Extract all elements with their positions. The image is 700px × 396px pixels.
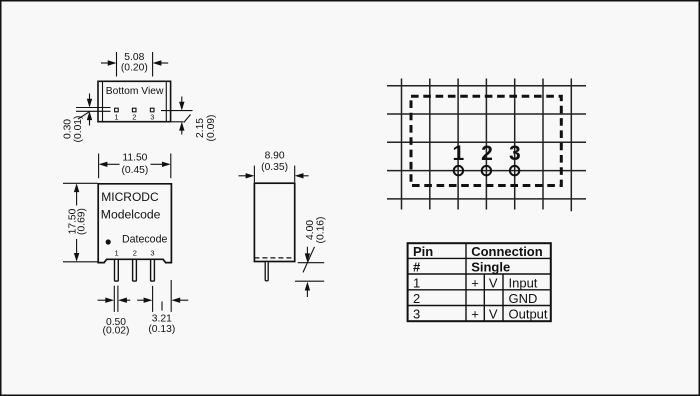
dimension 3.21 (0.13) lead to edge	[137, 280, 188, 312]
footprint hole 3	[510, 166, 519, 175]
svg-text:11.50: 11.50	[122, 152, 147, 163]
svg-text:3: 3	[150, 248, 154, 257]
svg-text:Single: Single	[471, 260, 510, 275]
svg-text:#: #	[413, 260, 421, 275]
svg-text:1: 1	[453, 142, 465, 165]
svg-text:MICRODC: MICRODC	[101, 190, 159, 204]
svg-text:3: 3	[413, 307, 420, 322]
footprint dashed outline	[411, 96, 561, 185]
pin connection table grid	[408, 243, 551, 321]
svg-text:1: 1	[114, 113, 118, 122]
svg-text:Connection: Connection	[471, 244, 543, 259]
front view package outline with standoff feet	[98, 184, 171, 263]
svg-text:+: +	[471, 275, 479, 290]
dimension 0.30 (0.01) pin thickness	[76, 94, 111, 126]
svg-text:(0.69): (0.69)	[77, 208, 88, 235]
svg-text:3: 3	[509, 142, 521, 165]
svg-text:(0.01): (0.01)	[73, 116, 84, 143]
svg-text:1: 1	[413, 275, 420, 290]
side view package outline	[254, 183, 294, 261]
dimension 17.50 (0.69) body height	[63, 183, 98, 261]
svg-text:Pin: Pin	[413, 244, 433, 259]
dimension 0.50 (0.02) lead width	[98, 286, 131, 312]
svg-text:8.90: 8.90	[265, 151, 285, 162]
pcb grid lines	[387, 79, 586, 212]
svg-text:V: V	[489, 307, 498, 322]
svg-text:3: 3	[150, 113, 154, 122]
svg-text:(0.35): (0.35)	[261, 162, 288, 173]
footprint hole 1	[454, 166, 463, 175]
dimension 8.90 (0.35) body depth	[239, 166, 309, 183]
svg-text:(0.02): (0.02)	[103, 326, 130, 337]
pin 1 pad	[115, 108, 119, 112]
svg-text:Input: Input	[509, 275, 538, 290]
dimension 4.00 (0.16) lead length	[295, 247, 324, 297]
svg-text:(0.09): (0.09)	[206, 115, 217, 142]
svg-text:(0.20): (0.20)	[121, 63, 148, 74]
pin 2 pad	[132, 108, 136, 112]
side view lead	[265, 262, 268, 281]
front lead 3	[151, 259, 155, 281]
svg-text:2: 2	[413, 291, 420, 306]
svg-text:1: 1	[115, 248, 119, 257]
svg-text:2: 2	[481, 142, 493, 165]
side view standoff dashed line	[254, 257, 294, 259]
bottom view package outline	[98, 81, 171, 121]
svg-text:(0.13): (0.13)	[148, 324, 175, 335]
svg-text:+: +	[471, 307, 479, 322]
svg-text:Bottom View: Bottom View	[106, 86, 164, 97]
svg-text:2: 2	[133, 248, 137, 257]
svg-text:V: V	[489, 275, 498, 290]
svg-text:Datecode: Datecode	[122, 233, 167, 245]
svg-text:2: 2	[132, 113, 136, 122]
svg-text:Output: Output	[509, 307, 548, 322]
svg-text:Modelcode: Modelcode	[101, 208, 161, 222]
front lead 1	[115, 259, 119, 281]
front lead 2	[133, 259, 137, 281]
svg-text:GND: GND	[509, 291, 538, 306]
svg-text:(0.45): (0.45)	[121, 165, 148, 176]
pin 1 indicator dot	[106, 239, 111, 244]
dimension 11.50 (0.45) body width	[99, 154, 171, 179]
svg-text:2.15: 2.15	[195, 118, 206, 138]
svg-text:(0.16): (0.16)	[315, 217, 326, 244]
svg-text:3.21: 3.21	[152, 313, 172, 324]
footprint hole 2	[482, 166, 491, 175]
dimension 5.08 (0.20)	[101, 52, 168, 77]
pin 3 pad	[150, 108, 154, 112]
dimension 2.15 (0.09) pin offset	[161, 97, 193, 135]
